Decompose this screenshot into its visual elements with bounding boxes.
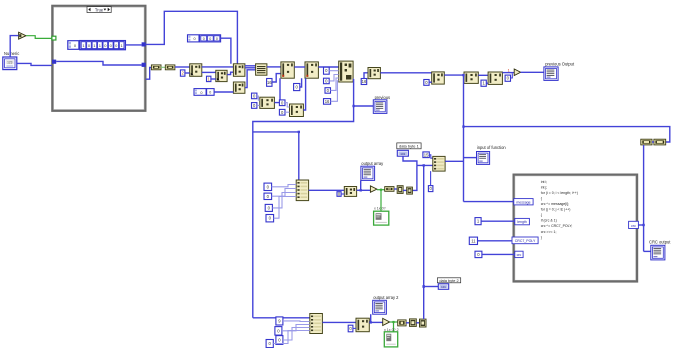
svg-text:crc >>= 1;: crc >>= 1;: [541, 230, 557, 234]
svg-text:int i;: int i;: [541, 180, 547, 184]
svg-text:data byte 1: data byte 1: [399, 143, 420, 148]
svg-text:input of function: input of function: [477, 145, 507, 150]
svg-text:1: 1: [508, 68, 510, 72]
svg-text:crc: crc: [631, 224, 636, 228]
svg-text:crc: crc: [517, 253, 522, 257]
svg-text:Numeric: Numeric: [4, 51, 19, 56]
svg-text:crc ^= CRC7_POLY;: crc ^= CRC7_POLY;: [541, 224, 573, 228]
svg-text:101: 101: [441, 285, 446, 289]
svg-text:if (crc & 1): if (crc & 1): [541, 219, 557, 223]
svg-text:0: 0: [194, 37, 196, 41]
svg-text:crc ^= message[i];: crc ^= message[i];: [541, 202, 569, 206]
svg-text:16: 16: [362, 79, 367, 84]
svg-text:for (i = 0; i < length; i++): for (i = 0; i < length; i++): [541, 191, 578, 195]
svg-text:output array 2: output array 2: [373, 295, 399, 300]
svg-text:True: True: [95, 7, 104, 12]
svg-text:x 1x 0?: x 1x 0?: [374, 206, 386, 210]
svg-text:length: length: [517, 220, 527, 224]
svg-text:int j;: int j;: [541, 185, 547, 189]
svg-text:0: 0: [216, 37, 218, 41]
svg-text:previous: previous: [375, 95, 390, 100]
svg-text:for (j = 0; j < 8; j++): for (j = 0; j < 8; j++): [541, 208, 571, 212]
svg-text:message: message: [516, 200, 530, 204]
svg-text:123: 123: [7, 61, 13, 65]
svg-text:output array: output array: [361, 161, 384, 166]
svg-text:16: 16: [267, 80, 272, 85]
svg-text:0: 0: [209, 37, 211, 41]
svg-text:11: 11: [471, 238, 476, 243]
svg-text:16: 16: [325, 99, 330, 104]
svg-text:101: 101: [400, 152, 405, 156]
svg-text:0: 0: [203, 37, 205, 41]
svg-text:CRC output: CRC output: [649, 240, 671, 245]
svg-text:data byte 2: data byte 2: [439, 278, 458, 283]
svg-text:CRC7_POLY: CRC7_POLY: [515, 239, 536, 243]
svg-text:15: 15: [424, 152, 429, 157]
svg-text:previous Output: previous Output: [545, 61, 575, 66]
svg-text:0: 0: [209, 91, 211, 95]
svg-text:0: 0: [200, 91, 202, 95]
